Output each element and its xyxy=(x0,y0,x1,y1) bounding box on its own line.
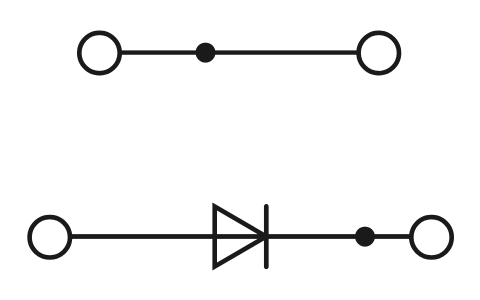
terminal circle top-left xyxy=(79,33,119,73)
terminal circle bottom-left xyxy=(30,217,70,257)
diode cathode bar xyxy=(264,206,269,266)
diode triangle (anode) xyxy=(215,207,267,267)
terminal circle bottom-right xyxy=(411,217,451,257)
top rail wire xyxy=(100,50,379,54)
terminal circle top-right xyxy=(359,33,399,73)
junction dot on bottom rail xyxy=(355,227,375,247)
junction dot on top rail xyxy=(196,43,216,63)
bottom rail wire xyxy=(50,234,432,239)
